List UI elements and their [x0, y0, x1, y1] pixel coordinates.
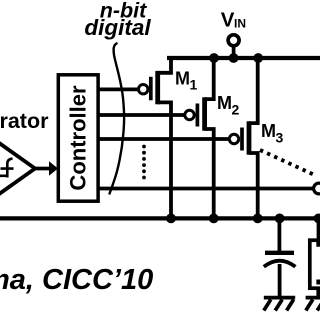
svg-text:M: M — [261, 121, 276, 141]
svg-text:2: 2 — [232, 102, 240, 118]
svg-text:Controller: Controller — [66, 85, 91, 191]
svg-text:digital: digital — [84, 15, 151, 40]
svg-text:M: M — [217, 93, 232, 113]
svg-text:ma, CICC’10: ma, CICC’10 — [0, 264, 153, 296]
svg-text:IN: IN — [234, 17, 246, 31]
svg-text:1: 1 — [190, 77, 198, 93]
svg-text:arator: arator — [0, 109, 49, 133]
svg-text:V: V — [221, 8, 235, 31]
svg-text:3: 3 — [276, 130, 284, 146]
svg-text:M: M — [175, 68, 190, 88]
